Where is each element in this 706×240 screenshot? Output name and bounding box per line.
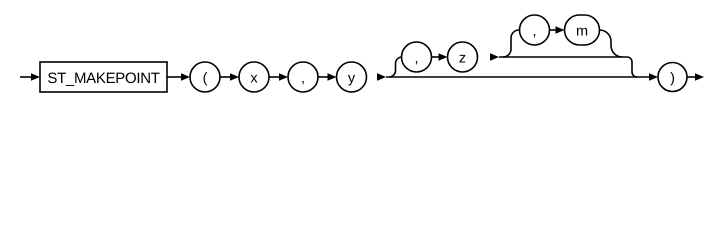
wire comma3 to m xyxy=(550,29,557,31)
wire x to comma1 xyxy=(269,76,280,78)
wire open paren to x xyxy=(220,76,231,78)
terminal z xyxy=(448,42,478,72)
svg-text:z: z xyxy=(459,51,466,67)
svg-text:): ) xyxy=(670,71,675,87)
svg-text:,: , xyxy=(414,51,418,67)
wire exit xyxy=(687,76,696,78)
svg-text:(: ( xyxy=(203,71,208,87)
arrowhead after y xyxy=(377,73,386,81)
svg-text:,: , xyxy=(301,71,305,87)
arrowhead before comma1 xyxy=(279,73,288,81)
box ST_MAKEPOINT xyxy=(40,62,167,92)
wire rise curve from z-row up to m-row xyxy=(503,30,519,57)
wire descent curve from z-row down to main line xyxy=(627,57,637,77)
arrowhead before close paren xyxy=(649,73,658,81)
terminal close paren xyxy=(658,63,687,92)
wire comma2 to z xyxy=(432,56,441,58)
wire rect to open paren xyxy=(167,76,182,78)
wire entry xyxy=(20,76,32,78)
svg-text:y: y xyxy=(348,71,356,87)
arrowhead before y xyxy=(328,73,337,81)
wire comma1 to y xyxy=(318,76,328,78)
arrowhead before m xyxy=(556,26,565,34)
arrowhead exit xyxy=(695,73,704,81)
terminal comma3 xyxy=(520,15,550,45)
terminal open paren xyxy=(190,62,220,92)
arrowhead before z xyxy=(439,53,448,61)
arrowhead before open paren xyxy=(181,73,190,81)
svg-text:,: , xyxy=(532,24,536,40)
terminal y xyxy=(337,62,367,92)
terminal comma1 xyxy=(288,62,318,92)
wire main skip line after y to close paren xyxy=(386,76,650,78)
svg-text:ST_MAKEPOINT: ST_MAKEPOINT xyxy=(47,70,159,87)
terminal x xyxy=(239,62,269,92)
svg-text:m: m xyxy=(576,24,588,40)
wire descent curve from m-row down to z-row xyxy=(600,30,623,57)
svg-text:x: x xyxy=(250,71,258,87)
terminal m stadium xyxy=(565,15,600,45)
arrowhead entry xyxy=(31,73,40,81)
wire z-row skip line xyxy=(499,56,627,58)
terminal comma2 xyxy=(402,42,432,72)
arrowhead before x xyxy=(230,73,239,81)
arrowhead after z xyxy=(490,53,499,61)
wire rise curve from main line up to z-row xyxy=(389,57,402,77)
